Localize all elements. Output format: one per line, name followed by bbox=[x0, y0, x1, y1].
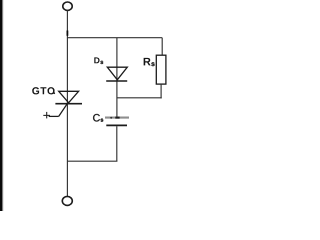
capacitor Cs bbox=[105, 117, 129, 126]
wire Rs bottom bbox=[160, 84, 162, 98]
wire Cs bottom bbox=[116, 126, 118, 161]
terminal bottom bbox=[62, 196, 72, 205]
label Cs bbox=[93, 114, 103, 122]
wire Rs top drop bbox=[161, 38, 163, 56]
diode Ds bbox=[106, 67, 127, 81]
wire Ds branch vertical bbox=[116, 38, 118, 117]
wire segment artifact above junction bbox=[66, 31, 68, 36]
resistor Rs bbox=[156, 55, 166, 84]
wire connector Ds-Rs junction bbox=[117, 97, 162, 99]
terminal top bbox=[63, 2, 72, 10]
label GTO trailing dot bbox=[53, 92, 55, 94]
wire bottom return bbox=[67, 160, 117, 162]
label GTO bbox=[32, 87, 54, 94]
thyristor GTO bbox=[49, 91, 82, 116]
wire top horizontal bus bbox=[67, 37, 162, 39]
label Rs bbox=[144, 58, 155, 66]
label Ds bbox=[94, 57, 103, 64]
gate plus mark bbox=[43, 112, 50, 119]
wire main vertical (anode to cathode terminal) bbox=[66, 10, 68, 196]
